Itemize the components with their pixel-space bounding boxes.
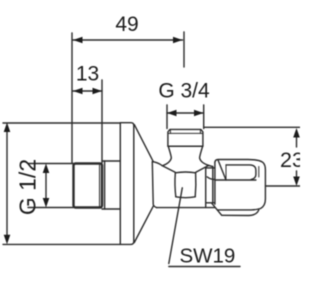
svg-text:13: 13: [76, 63, 99, 86]
svg-text:G 1/2: G 1/2: [15, 159, 41, 215]
svg-text:49: 49: [115, 13, 138, 36]
svg-text:G 3/4: G 3/4: [158, 80, 210, 103]
svg-text:23: 23: [280, 148, 300, 172]
svg-text:SW19: SW19: [180, 245, 236, 268]
